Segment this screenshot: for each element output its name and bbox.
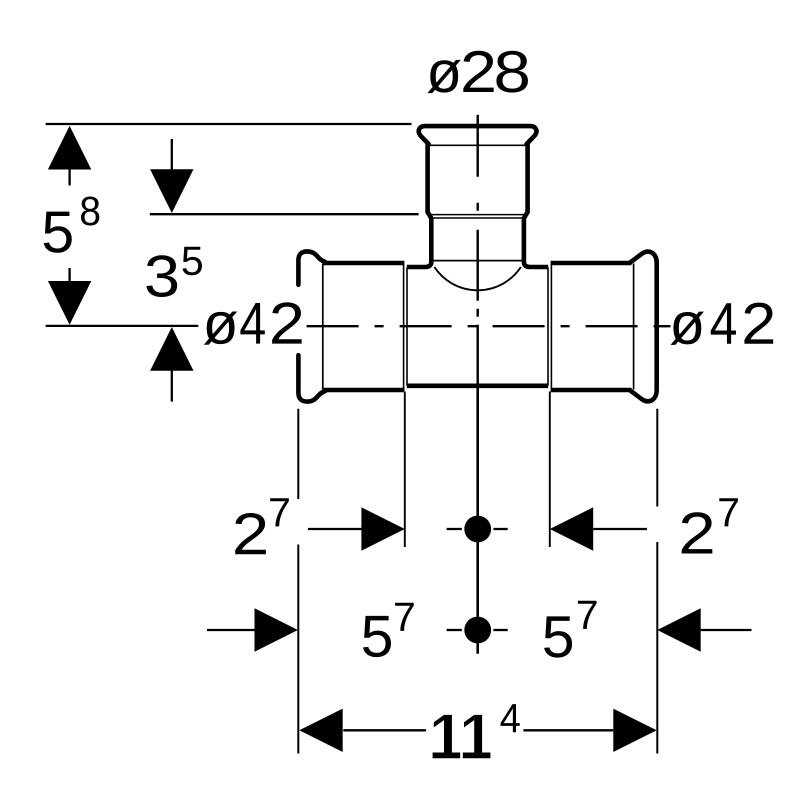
saddle arc where branch meets body [434,267,521,290]
row3 right-pointing arrow at x=656.7 [613,709,656,752]
centerline solid stub before right ø42 [660,325,671,327]
dim 3 (of 3.5) [146,255,177,297]
right step: tube end line (thin) [547,268,549,386]
line C: centerline level at left [46,325,199,327]
label ø42 left - 4 [240,303,264,344]
sup 7 row2 right [578,601,597,629]
branch right wall + socket step + fillet into body [524,144,548,267]
label ø42 left - ø [204,311,237,344]
row3 segments [343,729,426,731]
dim 5 row2 right [544,616,572,657]
dim 11 (of 11.4) custom footed digits [433,715,491,758]
body central tube bottom edge [407,383,548,388]
label ø42 right - 2 [744,303,773,344]
col1 up arrow at line A [48,126,91,170]
body collar bottom edges [323,388,405,393]
row1 segments [308,528,362,530]
dim 2 row1 left [235,513,266,554]
centerline solid extension below body through dots [476,388,479,654]
right outer extension line x=657.3 [656,409,658,507]
dim 5 (of 5.8) [44,212,72,253]
label ø28 - 8 [496,51,528,93]
col2 down arrow at line B [150,169,193,213]
row1 right-pointing arrow at x=404.8 [361,507,404,550]
branch socket bottom thin line [434,260,522,262]
branch left wall + socket step + fillet into body [407,144,432,267]
row1 center dot [464,516,491,543]
dim 5 row2 left [363,616,391,657]
left step: collar end line (thin) [403,265,405,390]
sup 7 row1 right [719,498,738,526]
body horizontal centerline (dash-dot) [307,325,660,327]
left bead upper hook [298,251,325,284]
label ø28 - 2 [463,51,493,92]
row1 left-pointing arrow at x=548.4 [550,507,593,550]
row2 center dot [464,617,491,644]
col1 down arrow at line C [48,281,91,325]
label ø42 right - ø [670,312,703,345]
sup 7 row2 left [395,603,414,631]
branch socket press lines (thin) [430,214,526,216]
left face line (thin) [322,264,324,390]
sup 7 row1 left [270,498,289,526]
body collar top edges [323,261,405,266]
label ø28 - ø [427,60,460,93]
label ø42 right - 4 [711,303,736,344]
branch top bead (collar) [419,126,537,144]
col2 stubs [171,139,173,170]
sup 5 (of 3.5) [183,247,202,276]
left step: tube start line (thin) [406,268,408,386]
line A: top of fitting [46,123,412,125]
right step: collar start line (thin) [550,265,552,390]
row3 left-pointing arrow at x=299.9 [299,709,342,752]
line B: branch socket depth level [150,213,419,215]
left bead lower hook [298,355,325,401]
left outer extension line x=298.3 [297,409,299,499]
branch collar base thin line [428,144,527,146]
right collar-length extension line x=549.8 [549,392,551,548]
digit 1 #2 [463,753,491,759]
col1 stubs [68,170,70,186]
label ø42 left - 2 [272,302,302,343]
branch vertical centerline (dash-dot) [477,115,479,388]
row2 left-pointing arrow at x=657.3 [657,608,700,651]
row2 segments [207,629,255,631]
right face line (thin) [633,264,635,390]
left collar-length extension line x=404.8 [404,392,406,548]
sup 4 (of 11.4) [500,704,519,732]
digit 1 #1 [433,753,461,759]
col2 up arrow below line C [150,327,193,371]
sup 8 (of 5.8) [81,196,99,225]
right bead (closed bulge) [631,252,657,402]
dim 2 row1 right [682,512,713,553]
row2 right-pointing arrow at x=297.9 [255,608,298,651]
